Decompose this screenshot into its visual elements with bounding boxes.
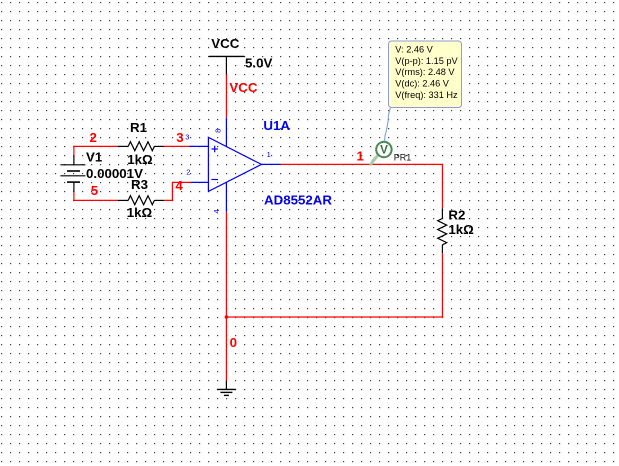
svg-text:V(freq): 331 Hz: V(freq): 331 Hz: [395, 90, 458, 100]
svg-text:V: 2.46 V: V: 2.46 V: [395, 44, 433, 54]
svg-text:5: 5: [91, 183, 99, 198]
svg-text:1kΩ: 1kΩ: [448, 222, 474, 237]
svg-text:VCC: VCC: [229, 80, 257, 95]
svg-text:V(p-p): 1.15 pV: V(p-p): 1.15 pV: [395, 56, 458, 66]
svg-text:1: 1: [267, 150, 271, 159]
svg-text:3: 3: [176, 130, 183, 145]
svg-text:4: 4: [212, 209, 221, 213]
svg-text:V(dc): 2.46 V: V(dc): 2.46 V: [395, 79, 449, 89]
svg-text:PR1: PR1: [394, 152, 412, 162]
svg-text:1kΩ: 1kΩ: [127, 205, 153, 220]
svg-text:R2: R2: [448, 208, 465, 223]
svg-text:1: 1: [357, 148, 365, 163]
svg-text:V1: V1: [86, 149, 103, 164]
svg-text:2: 2: [186, 168, 190, 177]
svg-text:8: 8: [213, 129, 222, 133]
svg-text:3: 3: [185, 133, 189, 142]
svg-text:0: 0: [230, 335, 237, 350]
svg-text:V(rms): 2.48 V: V(rms): 2.48 V: [395, 67, 455, 77]
svg-text:V: V: [380, 143, 388, 156]
svg-text:VCC: VCC: [211, 36, 239, 51]
svg-text:AD8552AR: AD8552AR: [264, 192, 332, 207]
svg-text:R3: R3: [131, 177, 148, 192]
svg-text:4: 4: [175, 178, 183, 193]
svg-text:5.0V: 5.0V: [245, 55, 272, 70]
svg-text:2: 2: [90, 130, 97, 145]
svg-text:1kΩ: 1kΩ: [127, 152, 153, 167]
svg-text:R1: R1: [130, 120, 148, 135]
svg-text:U1A: U1A: [263, 118, 290, 133]
